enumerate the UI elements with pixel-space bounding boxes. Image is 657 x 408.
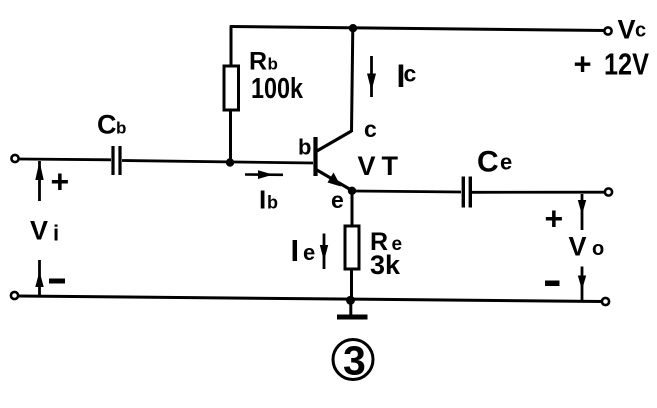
wire Rb bottom lead	[229, 110, 232, 163]
label Ib	[259, 185, 278, 215]
svg-text:b: b	[298, 135, 311, 160]
wire input to Cb	[19, 158, 111, 162]
voltage arrow Vo lower	[578, 267, 586, 302]
svg-text:+: +	[545, 201, 564, 237]
label +12V supply	[574, 47, 650, 82]
svg-text:b: b	[116, 119, 126, 138]
capacitor Cb	[113, 146, 120, 175]
svg-text:12V: 12V	[604, 47, 649, 82]
svg-text:C: C	[97, 110, 117, 140]
label Vo	[569, 232, 605, 262]
resistor Re	[345, 226, 359, 269]
svg-text:b: b	[267, 193, 278, 213]
node base junction	[226, 158, 234, 166]
svg-text:V: V	[618, 15, 636, 45]
svg-text:c: c	[364, 116, 377, 142]
svg-text:V: V	[358, 151, 376, 181]
svg-text:o: o	[592, 238, 604, 260]
svg-text:+: +	[51, 164, 70, 200]
wire collector vertical	[352, 28, 353, 132]
svg-text:e: e	[303, 240, 315, 265]
wire emitter down to Re	[351, 191, 354, 227]
svg-text:C: C	[477, 146, 499, 179]
label Ie	[291, 233, 316, 268]
svg-text:e: e	[331, 187, 344, 213]
label 3k value	[370, 250, 401, 280]
label Ic	[397, 58, 417, 94]
figure number 3 circled	[333, 338, 373, 384]
terminal output bottom	[602, 298, 609, 305]
label c	[364, 116, 377, 142]
label Vi	[30, 216, 59, 246]
current arrow Ib	[245, 170, 283, 179]
resistor Rb	[224, 66, 239, 110]
label Rb	[249, 48, 278, 76]
svg-text:100k: 100k	[251, 73, 304, 105]
label e	[331, 187, 344, 213]
svg-text:+: +	[574, 47, 592, 82]
wire Cb to base	[122, 161, 313, 164]
label VT	[358, 151, 399, 181]
svg-text:V: V	[569, 232, 587, 262]
svg-text:R: R	[249, 48, 267, 76]
ground	[337, 300, 368, 320]
label Vc	[618, 15, 647, 45]
svg-text:3: 3	[343, 338, 366, 384]
current arrow Ie	[320, 234, 328, 270]
voltage arrow Vi lower	[35, 260, 43, 296]
terminal output top	[605, 188, 612, 195]
bottom rail wire	[18, 296, 603, 302]
svg-text:c: c	[635, 20, 646, 42]
label 100k value	[251, 73, 304, 105]
label plus Vo	[545, 201, 564, 237]
node emitter junction	[348, 187, 356, 195]
label Ce	[477, 146, 512, 179]
wire emitter to Ce	[352, 191, 461, 192]
wire Re to ground rail	[350, 269, 353, 300]
label Cb	[97, 110, 126, 140]
label minus Vo	[545, 281, 560, 287]
svg-text:V: V	[30, 216, 48, 246]
svg-text:e: e	[500, 150, 512, 175]
svg-text:I: I	[259, 185, 266, 215]
svg-text:T: T	[382, 151, 399, 181]
current arrow Ic	[367, 56, 376, 97]
label minus Vi	[49, 279, 65, 284]
terminal Vc	[604, 27, 611, 34]
svg-text:b: b	[268, 55, 278, 74]
capacitor Ce	[463, 177, 470, 208]
voltage arrow Vi upper	[35, 161, 43, 201]
node top rail junction	[349, 24, 357, 32]
wire Rb top lead	[230, 26, 233, 68]
transistor VT	[316, 131, 353, 191]
top rail wire	[230, 27, 606, 31]
voltage arrow Vo upper	[578, 194, 586, 230]
svg-text:3k: 3k	[370, 250, 401, 280]
terminal input top	[11, 155, 18, 162]
wire Ce to output	[472, 191, 605, 194]
label b	[298, 135, 311, 160]
label Re	[370, 228, 402, 256]
terminal input bottom	[11, 292, 18, 299]
node ground junction	[346, 296, 355, 305]
svg-text:c: c	[404, 61, 417, 87]
label plus Vi	[51, 164, 70, 200]
svg-text:i: i	[53, 221, 59, 246]
svg-text:I: I	[291, 233, 300, 268]
